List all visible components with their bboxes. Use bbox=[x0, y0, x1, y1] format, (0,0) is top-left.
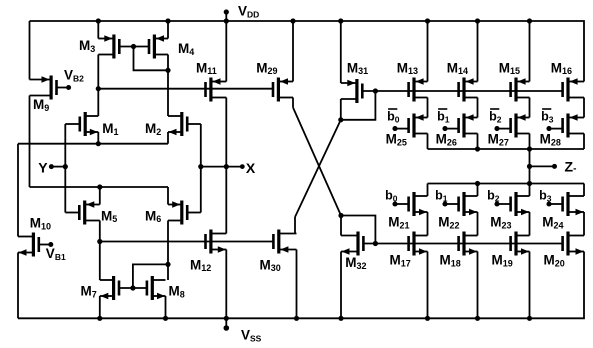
wire M14 source from VDD bbox=[477, 21, 479, 82]
transistor M32 bbox=[341, 232, 363, 256]
wire Y stub bbox=[51, 166, 65, 168]
wire M4 source drop from VDD bbox=[167, 21, 169, 39]
node VDD-M31 dot bbox=[338, 18, 343, 23]
transistor M28 bbox=[563, 114, 584, 138]
transistor M30 bbox=[273, 230, 296, 254]
wire M8 source drop bbox=[165, 296, 167, 318]
transistor M17 bbox=[409, 232, 428, 256]
wire M32 drain up bbox=[340, 216, 342, 236]
transistor M16 bbox=[563, 78, 584, 102]
wire M3 drain drop to bias node bbox=[97, 55, 99, 89]
transistor M13 bbox=[409, 78, 428, 102]
wire M4 gate-drain diode link bbox=[134, 47, 169, 71]
wire M5 gate lead bbox=[65, 212, 79, 214]
wire M1 source drop bbox=[97, 132, 99, 144]
wire M19 source to VSS bbox=[529, 252, 531, 319]
label bbar0 overbar bbox=[388, 108, 397, 110]
wire bbar0 gate stub bbox=[395, 128, 409, 130]
wire M32 source to VSS bbox=[340, 252, 342, 319]
node bbar3 dot bbox=[546, 126, 551, 131]
transistor M12 bbox=[206, 230, 227, 254]
transistor M2 bbox=[168, 112, 187, 136]
wire M6 gate lead bbox=[187, 212, 201, 214]
transistor M25 bbox=[409, 114, 428, 138]
node M32 gate dot bbox=[373, 241, 378, 246]
transistor M9 bbox=[30, 76, 57, 100]
node M31 gate dot bbox=[373, 88, 378, 93]
wire VSS rail bbox=[18, 252, 584, 319]
wire tail line of M1/M2 bbox=[18, 143, 168, 145]
transistor M10 bbox=[18, 233, 39, 257]
transistor M23 bbox=[511, 192, 530, 216]
node VSS terminal stub bbox=[225, 318, 227, 327]
wire M27 drain drop bbox=[529, 134, 531, 150]
node M19-VSS dot bbox=[527, 316, 532, 321]
wire M22 source to M18 drain bbox=[477, 212, 479, 236]
label bbar3 overbar bbox=[542, 108, 551, 110]
node Y terminal dot bbox=[49, 164, 54, 169]
wire M15 drain to M27 source bbox=[529, 98, 531, 118]
node M12-VSS dot bbox=[224, 316, 229, 321]
wire VDD rail bbox=[30, 21, 585, 82]
wire M10 source down to VSS bbox=[17, 253, 19, 319]
wire M16 drain to M28 source bbox=[583, 98, 585, 118]
wire M31 gate line to M13-M16 gates bbox=[362, 90, 562, 92]
wire M6 drain down to M8 drain bbox=[167, 221, 169, 265]
wire M9 gate stub bbox=[57, 87, 69, 89]
wire M2 source drop bbox=[167, 132, 169, 144]
node X-drain junction dot bbox=[224, 164, 229, 169]
node Z lower dot 2 bbox=[527, 181, 532, 186]
node b3 dot bbox=[546, 201, 551, 206]
wire M7-M8 gate link bbox=[119, 287, 147, 289]
wire Z stub bbox=[530, 165, 555, 167]
transistor M3 bbox=[98, 35, 119, 59]
transistor M22 bbox=[459, 192, 478, 216]
node VDD terminal stub bbox=[225, 12, 227, 21]
node VDD-M4 dot bbox=[165, 18, 170, 23]
node M7-VSS dot bbox=[97, 316, 102, 321]
node Z rail dot 2 bbox=[527, 146, 532, 151]
wire M6 source drop bbox=[167, 187, 169, 205]
wire M24 source to M20 drain bbox=[583, 212, 585, 236]
wire M29 source from VDD bbox=[292, 21, 294, 82]
wire M1 gate lead bbox=[65, 123, 80, 125]
wire M30 source to VSS bbox=[296, 250, 298, 319]
wire M9 drain down-left bbox=[29, 96, 31, 188]
node b1 dot bbox=[442, 201, 447, 206]
wire M7 source drop bbox=[99, 296, 101, 318]
wire M18 source to VSS bbox=[477, 252, 479, 319]
transistor M6 bbox=[168, 201, 187, 225]
wire M10 gate stub bbox=[39, 244, 51, 246]
wire top bias line to M11/M29 gates bbox=[98, 88, 273, 90]
node M8 drain dot bbox=[165, 262, 170, 267]
wire b3 gate stub bbox=[549, 203, 563, 205]
wire X horizontal bbox=[201, 166, 242, 168]
wire M2 gate lead bbox=[187, 123, 201, 125]
wire Y vertical gate line bbox=[64, 124, 66, 213]
wire M21 drain up bbox=[427, 184, 429, 197]
wire M4-M2 drain vertical bbox=[167, 70, 169, 116]
wire M13 source from VDD bbox=[427, 21, 429, 82]
node M7-M8 gate dot bbox=[130, 285, 135, 290]
wire M5 source up bbox=[99, 187, 101, 205]
wire b2 gate stub bbox=[497, 203, 511, 205]
transistor M11 bbox=[206, 78, 227, 102]
node X terminal dot bbox=[240, 164, 245, 169]
wire M17 source to VSS bbox=[427, 252, 429, 319]
wire M28 drain drop bbox=[583, 134, 585, 150]
node bbar2 dot bbox=[494, 126, 499, 131]
wire M26 drain drop bbox=[477, 134, 479, 150]
node VDD-M3 dot bbox=[96, 18, 101, 23]
wire M7/M8 gate-drain diode link bbox=[133, 264, 168, 288]
label bbar1 overbar bbox=[438, 108, 447, 110]
wire M11 drain to M12 drain bbox=[225, 98, 227, 234]
label bbar2 overbar bbox=[490, 108, 499, 110]
node M3-M4 gate dot bbox=[131, 44, 136, 49]
node M17-VSS dot bbox=[425, 316, 430, 321]
wire bbar2 gate stub bbox=[497, 128, 511, 130]
node Z rail dot 1 bbox=[475, 146, 480, 151]
transistor M31 bbox=[341, 79, 363, 103]
wire left rail to M9 source bbox=[29, 21, 31, 80]
node VDD-M14 dot bbox=[475, 18, 480, 23]
wire M1 drain up to bias node bbox=[97, 89, 99, 116]
transistor M29 bbox=[273, 78, 293, 102]
node A bias junction bbox=[96, 86, 101, 91]
node VDD-M29 dot bbox=[290, 18, 295, 23]
wire M31 diode link bbox=[341, 91, 376, 120]
transistor M24 bbox=[563, 192, 584, 216]
transistor M14 bbox=[459, 78, 478, 102]
node bbar1 dot bbox=[442, 126, 447, 131]
transistor M21 bbox=[409, 192, 428, 216]
transistor M26 bbox=[459, 114, 478, 138]
node M32-VSS dot bbox=[338, 316, 343, 321]
node M5 source dot bbox=[97, 184, 102, 189]
wire M12 source to VSS bbox=[225, 250, 227, 319]
wire M29 drain drop bbox=[292, 98, 294, 108]
wire M14 drain to M26 source bbox=[477, 98, 479, 118]
node M32 drain dot bbox=[338, 213, 343, 218]
node M4 drain dot bbox=[165, 68, 170, 73]
transistor M15 bbox=[511, 78, 530, 102]
wire M24 drain up bbox=[583, 184, 585, 197]
wire bbar3 gate stub bbox=[549, 128, 563, 130]
node M8-VSS dot bbox=[163, 316, 168, 321]
node M30-VSS dot bbox=[294, 316, 299, 321]
wire M22 drain up bbox=[477, 184, 479, 197]
wire M4 drain drop bbox=[167, 55, 169, 71]
node M31 drain dot bbox=[338, 117, 343, 122]
wire M5 drain drop to lower bias node bbox=[99, 221, 101, 242]
node VDD-M11 dot bbox=[224, 18, 229, 23]
wire M7 drain up to lower bias node bbox=[99, 242, 101, 281]
node VSS terminal dot bbox=[224, 325, 230, 331]
wire M23 source to M19 drain bbox=[529, 212, 531, 236]
wire M3-M4 gate link bbox=[119, 46, 149, 48]
node M18-VSS dot bbox=[475, 316, 480, 321]
wire Z upper rail (M25-M28 drains) bbox=[428, 148, 585, 150]
wire M32 diode link bbox=[341, 216, 375, 244]
wire M11 source from VDD bbox=[225, 21, 227, 82]
wire M21 source to M17 drain bbox=[427, 212, 429, 236]
node VB1 dot bbox=[48, 242, 53, 247]
svg-text:X: X bbox=[246, 160, 256, 176]
transistor M19 bbox=[511, 232, 530, 256]
node VDD-M15 dot bbox=[527, 18, 532, 23]
wire M30 drain up bbox=[294, 217, 296, 234]
wire cross diagonal B bbox=[295, 120, 341, 217]
transistor M27 bbox=[511, 114, 530, 138]
transistor M4 bbox=[149, 35, 168, 59]
node bbar0 dot bbox=[392, 126, 397, 131]
wire b1 gate stub bbox=[445, 203, 459, 205]
node VDD terminal dot bbox=[224, 9, 229, 14]
wire M10 drain up to tail line bbox=[17, 144, 19, 237]
transistor M8 bbox=[147, 276, 166, 300]
node b0 dot bbox=[392, 201, 397, 206]
wire bottom bias line to M12/M30 gates bbox=[100, 241, 273, 243]
svg-text:Y: Y bbox=[38, 160, 48, 176]
wire M31 source from VDD bbox=[340, 21, 342, 83]
wire bbar1 gate stub bbox=[445, 128, 459, 130]
node Z tap dot bbox=[527, 164, 532, 169]
node B lower bias junction bbox=[97, 239, 102, 244]
wire M31 drain drop bbox=[340, 99, 342, 120]
wire M13 drain to M25 source bbox=[427, 98, 429, 118]
wire M3 source drop from VDD bbox=[97, 21, 99, 39]
node Z terminal dot bbox=[552, 164, 557, 169]
node Y junction dot bbox=[63, 164, 68, 169]
node X-gate junction dot bbox=[198, 164, 203, 169]
wire M23 drain up bbox=[529, 184, 531, 197]
node M1 source dot bbox=[96, 141, 101, 146]
wire M8 drain up bbox=[167, 264, 169, 280]
transistor M18 bbox=[459, 232, 478, 256]
transistor M7 bbox=[100, 276, 119, 300]
wire M32 gate line to M17-M20 gates bbox=[363, 243, 562, 245]
node Z lower dot 1 bbox=[475, 181, 480, 186]
wire M5/M6 source line bbox=[30, 186, 169, 188]
wire M15 source from VDD bbox=[529, 21, 531, 82]
wire M25 drain drop bbox=[427, 134, 429, 150]
transistor M1 bbox=[80, 112, 99, 136]
transistor M5 bbox=[79, 201, 100, 225]
node VDD-M13 dot bbox=[425, 18, 430, 23]
wire cross diagonal A bbox=[293, 108, 341, 216]
node VB2 dot bbox=[66, 85, 71, 90]
wire X vertical M2/M6 gates bbox=[200, 124, 202, 213]
transistor M20 bbox=[563, 232, 584, 256]
wire Z vertical link bbox=[529, 149, 531, 184]
wire Z lower rail (M21-M24 drains) bbox=[428, 183, 585, 185]
wire b0 gate stub bbox=[395, 203, 409, 205]
node b2 dot bbox=[494, 201, 499, 206]
